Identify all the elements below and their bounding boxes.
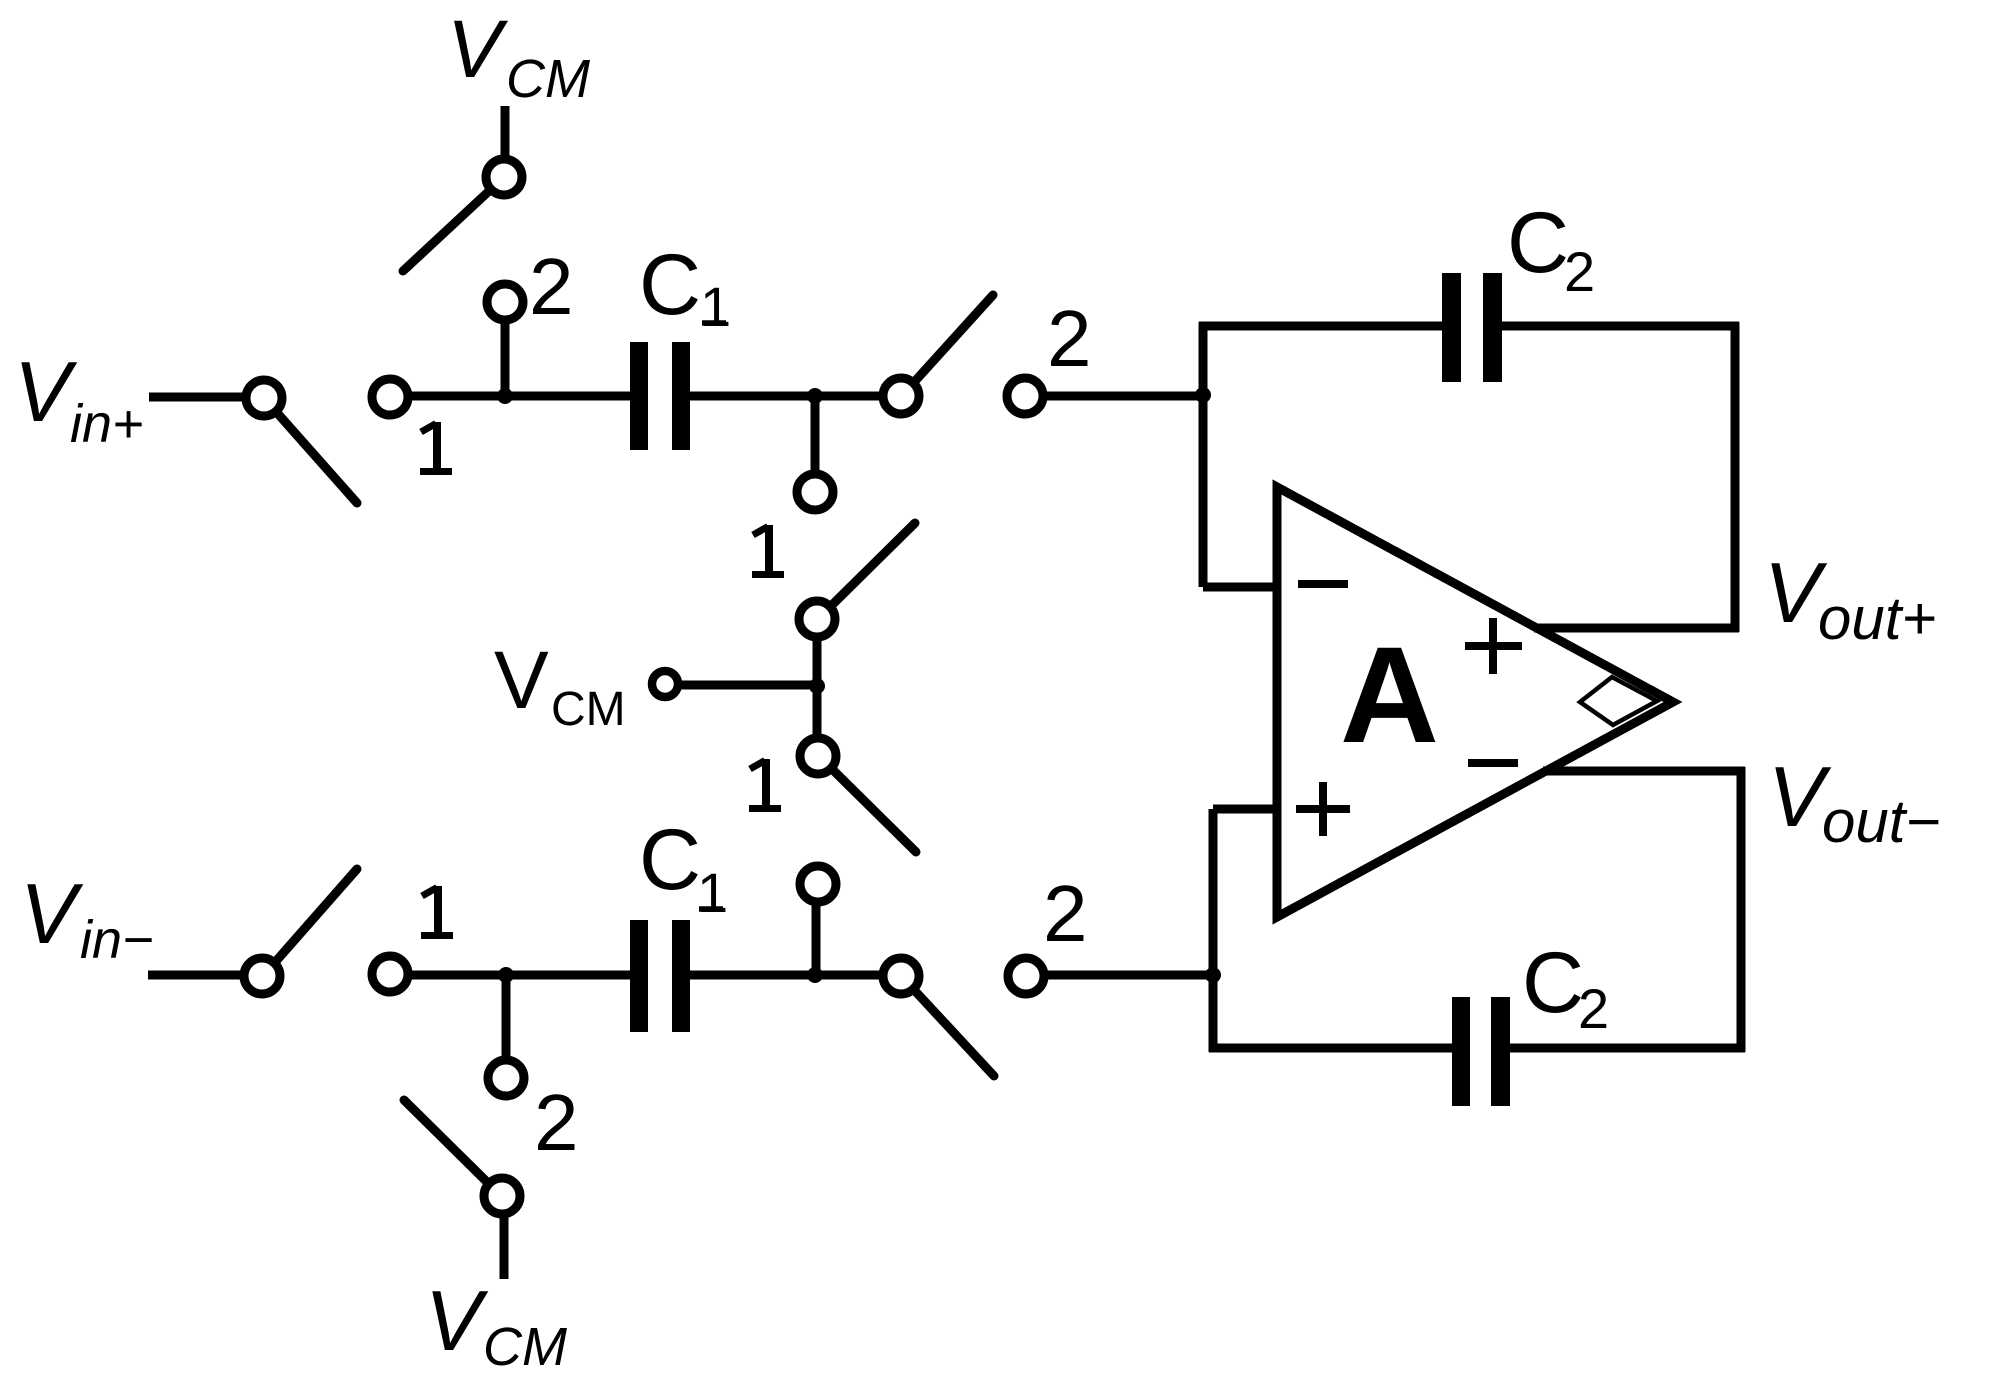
switch S7 lever (open) xyxy=(834,771,916,852)
svg-text:1: 1 xyxy=(700,275,731,338)
wire C1' right plate to switch S8 xyxy=(690,971,884,980)
op-amp U1 output diamond mark xyxy=(1580,677,1657,725)
value label C2 (bottom) xyxy=(1522,935,1609,1040)
svg-text:out+: out+ xyxy=(1818,585,1936,652)
svg-text:out−: out− xyxy=(1822,788,1940,855)
svg-text:in−: in− xyxy=(80,910,154,970)
terminal contact circle of S6 (phase 2) xyxy=(488,1060,524,1096)
terminal contact circle of S2 (phase 2) xyxy=(487,284,523,320)
wire Vin- to switch S5 xyxy=(148,971,242,980)
value label C1 (bottom) xyxy=(639,812,728,924)
wire junction down to S6 contact xyxy=(502,975,511,1060)
svg-text:in+: in+ xyxy=(70,394,144,454)
op-amp U1 non-inverting input marker (plus) xyxy=(1296,782,1350,836)
wire vertical of top feedback branch xyxy=(1199,322,1208,587)
switch S3 lever (open) xyxy=(833,523,915,604)
capacitor C1 (top) plates xyxy=(630,342,690,450)
svg-text:CM: CM xyxy=(483,1317,567,1377)
svg-text:CM: CM xyxy=(551,683,626,736)
switch S1 lever (open) xyxy=(279,415,357,503)
net label Vin+ xyxy=(14,345,144,454)
svg-text:C: C xyxy=(639,237,701,333)
junction node VCM middle xyxy=(809,678,825,694)
svg-text:V: V xyxy=(14,345,78,440)
svg-text:2: 2 xyxy=(534,1078,579,1167)
wire inverting input to op-amp xyxy=(1203,583,1277,592)
switch S6 lever (open) xyxy=(404,1100,486,1181)
terminal circle of VCM source (middle) xyxy=(652,671,678,697)
wire bottom feedback right segment from C2' to corner xyxy=(1510,1044,1745,1053)
switch S2 pivot circle (VCM reset switch, top-left) xyxy=(486,159,522,195)
wire S8 contact to summing node (non-inverting input) xyxy=(1044,971,1213,980)
junction node at top-right of C1 (right plate node) xyxy=(807,388,823,404)
svg-text:V: V xyxy=(425,1274,489,1369)
svg-text:C: C xyxy=(639,812,701,908)
op-amp U1 positive output marker (plus) xyxy=(1465,618,1522,674)
pin label 1 for S1 xyxy=(420,422,452,474)
terminal contact circle of S8 (phase 2) xyxy=(1008,958,1044,994)
wire bottom feedback left segment to C2' xyxy=(1209,1044,1453,1053)
terminal contact circle of S4 (phase 2) xyxy=(1007,378,1043,414)
terminal contact circle of S3 (phase 1, upper) xyxy=(797,474,833,510)
svg-text:2: 2 xyxy=(529,242,574,331)
svg-text:C: C xyxy=(1522,935,1584,1031)
pin label 1 for S7 xyxy=(749,759,781,811)
switch S2 lever (open) xyxy=(403,192,488,271)
wire right vertical of bottom feedback loop xyxy=(1737,767,1746,1052)
net label Vout+ xyxy=(1764,546,1936,652)
svg-text:V: V xyxy=(494,635,549,726)
net label VCM (top) xyxy=(447,4,590,109)
value label C1 (top) xyxy=(639,237,731,338)
wire VCM node down to S7 pivot xyxy=(813,686,822,737)
junction node at bottom-right of C1' (right plate node) xyxy=(807,967,823,983)
svg-text:A: A xyxy=(1340,619,1439,772)
wire junction up to S2 contact xyxy=(501,321,510,396)
switch S6 pivot circle (VCM reset switch, bottom-left) xyxy=(484,1178,520,1214)
junction node at inverting input branch xyxy=(1195,387,1211,403)
terminal contact circle of S7 (phase 1, lower) xyxy=(800,866,836,902)
svg-text:V: V xyxy=(20,867,84,962)
svg-text:2: 2 xyxy=(1047,294,1092,383)
capacitor C2' (bottom feedback) plates xyxy=(1452,997,1510,1106)
wire non-inverting input to op-amp xyxy=(1213,805,1277,814)
wire Vout- from op-amp output to feedback corner xyxy=(1543,767,1745,776)
svg-text:CM: CM xyxy=(506,49,590,109)
op-amp U1 inverting input marker (minus) xyxy=(1298,580,1348,588)
wire S6 pivot down to VCM stub xyxy=(500,1215,509,1279)
switch S8 lever (open) xyxy=(916,992,994,1076)
op-amp U1 negative output marker (minus) xyxy=(1468,759,1518,767)
svg-text:C: C xyxy=(1507,195,1569,291)
terminal contact circle of S1 (phase 1) xyxy=(372,379,408,415)
net label Vout- xyxy=(1768,750,1940,855)
capacitor C1' (bottom) plates xyxy=(630,920,690,1032)
wire top feedback right segment from C2 to corner xyxy=(1502,322,1739,331)
svg-text:2: 2 xyxy=(1564,240,1595,303)
wire VCM terminal to mid junction xyxy=(678,681,817,690)
svg-text:2: 2 xyxy=(1578,977,1609,1040)
wire Vout+ from op-amp output to feedback corner xyxy=(1534,624,1739,633)
svg-text:2: 2 xyxy=(1043,869,1088,958)
net label VCM (middle) xyxy=(494,635,626,736)
svg-text:V: V xyxy=(447,4,509,95)
pin label 1 for S3 xyxy=(752,525,784,577)
junction node at non-inverting input branch xyxy=(1205,967,1221,983)
switch S4 pivot circle (phase 2 series switch, top) xyxy=(883,378,919,414)
wire top feedback left segment to C2 xyxy=(1199,322,1443,331)
wire Vin+ to switch S1 xyxy=(149,393,244,402)
wire junction down to S3 contact xyxy=(811,396,820,474)
op-amp U1 triangle xyxy=(1277,487,1673,917)
switch S1 pivot circle (phase 1 input switch, top) xyxy=(246,380,282,416)
wire S7 contact down to bottom rail junction xyxy=(812,902,821,975)
switch S7 pivot circle (lower VCM mid switch) xyxy=(800,738,836,774)
net label Vin- xyxy=(20,867,154,970)
junction node at top-left (left plate node) xyxy=(497,388,513,404)
switch S5 pivot circle (phase 1 input switch, bottom) xyxy=(244,958,280,994)
wire C1 right plate to switch S4 xyxy=(690,392,884,401)
value label C2 (top) xyxy=(1507,195,1595,303)
junction node at bottom-left (left plate node) xyxy=(498,967,514,983)
switch S8 pivot circle (phase 2 series switch, bottom) xyxy=(883,958,919,994)
wire S3 pivot down to VCM node xyxy=(813,637,822,686)
net label VCM (bottom) xyxy=(425,1274,567,1377)
wire S2 pivot up to VCM stub xyxy=(501,106,510,158)
switch S3 pivot circle (upper VCM mid switch) xyxy=(799,601,835,637)
wire S4 contact to summing node (inverting input) xyxy=(1043,392,1203,401)
wire right vertical of top feedback loop xyxy=(1731,322,1740,632)
svg-text:1: 1 xyxy=(697,861,728,924)
wire S1 contact to C1 left plate xyxy=(407,392,631,401)
wire S5 contact to C1' left plate xyxy=(407,971,631,980)
switch S5 lever (open) xyxy=(277,869,357,960)
switch S4 lever (open) xyxy=(916,295,993,380)
capacitor C2 (top feedback) plates xyxy=(1442,273,1502,382)
pin label 1 for S5 xyxy=(421,886,453,938)
terminal contact circle of S5 (phase 1) xyxy=(372,956,408,992)
wire vertical of bottom feedback branch xyxy=(1209,809,1218,1052)
